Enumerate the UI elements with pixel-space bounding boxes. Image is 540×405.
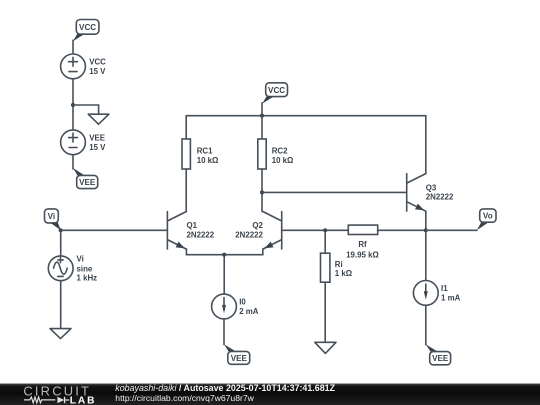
svg-text:19.95 kΩ: 19.95 kΩ [346,250,379,259]
resistor RC2 10k [258,116,294,212]
node (emitters) [222,253,226,257]
wire (Q3 emitter) [425,211,427,230]
node (Rf/Ri junction) [323,228,327,232]
ground (Vi) [50,329,71,339]
svg-text:sine: sine [77,265,93,274]
wire (to Vo) [426,229,477,231]
wire [72,155,74,169]
wire [60,230,62,256]
wire (Q3 collector) [425,116,427,174]
svg-text:VEE: VEE [79,178,96,187]
voltage source V2 VEE 15V [61,130,107,155]
svg-text:2N2222: 2N2222 [426,193,454,202]
svg-text:10 kΩ: 10 kΩ [197,156,219,165]
wire [72,40,74,54]
current source I0 2mA [212,294,259,319]
resistor Ri 1k [321,230,353,342]
wire (Q2 base) [282,229,326,231]
svg-text:1 kΩ: 1 kΩ [335,269,352,278]
svg-text:RC2: RC2 [272,146,288,155]
svg-text:I1: I1 [441,284,448,293]
svg-text:Q1: Q1 [187,221,198,230]
svg-text:RC1: RC1 [197,146,213,155]
svg-text:1 kHz: 1 kHz [77,274,98,283]
svg-text:2N2222: 2N2222 [187,230,215,239]
svg-text:Q2: Q2 [252,221,263,230]
svg-text:I0: I0 [239,298,246,307]
voltage source Vi sine 1kHz [48,255,97,283]
net flag VEE (under I1) [426,344,451,364]
svg-text:Vi: Vi [48,212,56,221]
svg-text:Q3: Q3 [426,183,437,192]
svg-text:VCC: VCC [268,86,285,95]
transistor Q3 2N2222 [407,174,454,212]
wire [261,103,263,116]
CircuitLab logo resistor zigzag [24,397,55,403]
wire [223,319,225,345]
svg-text:2N2222: 2N2222 [235,230,263,239]
svg-text:VEE: VEE [89,133,105,142]
node (output) [424,228,428,232]
net flag Vo [477,209,496,230]
node (VCC/VEE midpoint) [71,103,75,107]
CircuitLab logo diode [57,397,64,403]
svg-text:VCC: VCC [79,23,96,32]
wire (to Q3 base) [262,191,407,193]
wire [223,255,225,295]
node (VCC rail) [260,114,264,118]
svg-text:15 V: 15 V [89,67,106,76]
svg-text:LAB: LAB [70,396,97,405]
svg-text:VEE: VEE [231,354,248,363]
wire [425,230,427,280]
net flag VCC (top-middle) [262,83,288,104]
svg-text:Vo: Vo [483,212,493,221]
wire [73,105,99,114]
node (Vi) [59,228,63,232]
transistor Q2 2N2222 [224,212,282,255]
net flag VEE (left) [73,168,98,189]
current source I1 1mA [413,281,460,306]
svg-text:10 kΩ: 10 kΩ [272,156,294,165]
svg-text:http://circuitlab.com/cnvq7w67: http://circuitlab.com/cnvq7w67u8r7w [115,393,254,403]
wire top rail [186,115,426,117]
ground [88,114,109,124]
net flag VCC (top-left) [73,20,99,42]
footer bar [0,383,540,405]
svg-text:Rf: Rf [358,240,367,249]
svg-text:Vi: Vi [77,255,84,264]
svg-text:Ri: Ri [335,260,343,269]
transistor Q1 2N2222 [167,212,224,255]
node (RC2 / Q3 base) [260,190,264,194]
wire [60,281,62,329]
wire (Vi to Q1 base) [61,229,168,231]
svg-text:kobayashi-daiki / Autosave 202: kobayashi-daiki / Autosave 2025-07-10T14… [115,383,335,393]
svg-text:VEE: VEE [432,354,449,363]
net flag Vi [45,209,61,230]
voltage source V1 VCC 15V [61,54,107,79]
svg-text:15 V: 15 V [89,143,106,152]
resistor RC1 10k [182,116,218,212]
wire [425,305,427,344]
svg-text:VCC: VCC [89,57,106,66]
resistor Rf 19.95k [325,225,426,259]
wire [72,79,74,130]
ground (Ri) [315,342,336,353]
svg-text:1 mA: 1 mA [441,293,461,302]
svg-text:2 mA: 2 mA [239,307,259,316]
net flag VEE (under I0) [224,344,250,364]
